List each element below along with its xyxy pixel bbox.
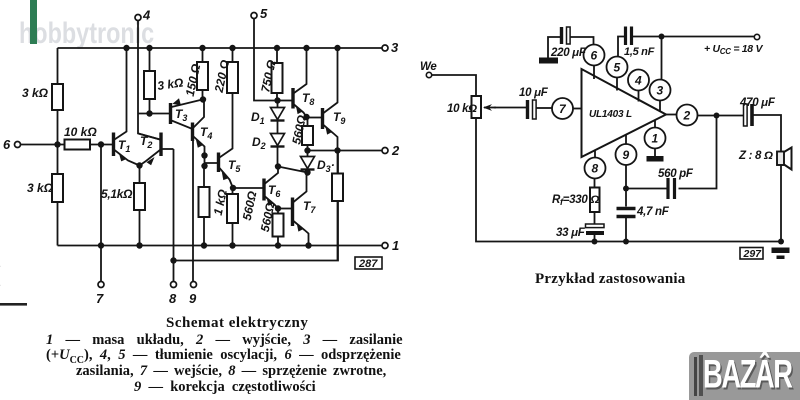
junction R8 rail [229,45,235,51]
svg-text:8: 8 [592,162,599,176]
junction D3 top node [304,147,310,153]
label 750 R11lbl [258,58,279,94]
svg-text:Rf=330 Ω: Rf=330 Ω [552,194,599,207]
resistor R10 560 (second) [273,209,284,246]
junction T5 emitter node [230,185,236,191]
label 560 R9 [240,189,260,221]
label 220uF [550,47,587,59]
junction emitters T1 T2 [136,162,142,168]
transistor T6 [264,167,278,209]
svg-text:T1: T1 [118,138,130,154]
svg-text:4: 4 [142,8,151,23]
label D1 [251,110,265,126]
svg-text:7: 7 [96,291,104,306]
label 220 R7lbl [212,58,233,95]
junction R10 rail [275,242,281,248]
svg-text:10 μF: 10 μF [519,87,549,99]
watermark BAZAR stripes [694,357,697,396]
label pin1 [392,238,399,253]
svg-text:T5: T5 [228,158,241,174]
junction T8 emitter node [303,114,309,120]
wire We to pot [432,75,476,96]
svg-text:287: 287 [358,258,378,270]
node supply terminal [754,34,759,39]
junction R5 bottom [146,110,152,116]
watermark green bar [30,0,37,44]
capacitor C2 220uF [548,27,594,58]
wire supply line [662,36,755,38]
capacitor C5 560pF [626,178,675,199]
pin circle 8 [585,150,606,179]
speaker Z8 [777,148,792,242]
svg-text:T6: T6 [268,183,281,199]
resistor R8 220 [227,48,238,93]
svg-text:+ UCC = 18 V: + UCC = 18 V [704,43,763,56]
junction supply [659,34,665,40]
label 10uF [519,87,549,99]
svg-text:D2: D2 [252,135,266,151]
caption Schemat elektryczny [166,315,308,332]
label pin5 [260,6,268,21]
svg-text:UL1403 L: UL1403 L [589,109,632,120]
resistor R12 560 (third) [302,117,313,151]
label digit 1 [652,132,659,146]
node We terminal [426,72,431,77]
junction T7 emitter rail [305,242,311,248]
junction 1k top [201,163,207,169]
node pin9 terminal [191,282,197,288]
label pin2 [391,143,400,158]
label T6 [268,183,281,199]
label 560pF [658,168,694,180]
pin circle 2 [666,105,698,126]
resistor R9 560 (first) [227,188,238,246]
wire pin8 down [594,179,596,188]
legend line 1 [46,332,400,349]
ground under pin1 [647,149,664,162]
svg-text:10 kΩ: 10 kΩ [447,103,477,115]
wire output node [308,150,383,152]
junction T8 collector rail [303,45,309,51]
svg-text:1,5 nF: 1,5 nF [624,46,655,58]
label 470uF [739,97,776,109]
wire pot bottom to ground rail [476,118,781,242]
label T9 [333,110,345,126]
pin circle 3 [650,80,671,113]
pin circle 5 [607,57,628,91]
node pin5 terminal [251,13,257,19]
label T1 [118,138,130,154]
wire pin8 column [173,149,175,282]
wire left column [57,48,59,246]
junction T1 base node [98,141,104,147]
node pin1 terminal [382,243,388,249]
node pin3 terminal [382,45,388,51]
svg-text:T3: T3 [175,107,187,123]
svg-text:4,7 nF: 4,7 nF [636,206,670,218]
transistor T4 [193,100,205,156]
wire bottom ground rail [58,245,385,247]
resistor R11 750 [272,48,283,101]
diode D3 [301,151,315,173]
ground under C2 [539,58,558,64]
node pin7 terminal [98,282,104,288]
label digit 6 [591,49,598,63]
wire feedback rail [174,152,339,261]
junction output [334,147,340,153]
junction T6 collector [275,163,281,169]
label D2 [252,135,266,151]
label pin3 [391,40,399,55]
svg-text:e: e [0,275,1,294]
label We [420,61,437,73]
ground speaker [772,248,790,260]
capacitor C3 1.5nF [618,27,662,57]
watermark BAZAR text [703,353,800,398]
label digit 5 [614,61,621,75]
pin circle 1 [645,120,666,149]
wire supply to pin3 [661,37,663,80]
svg-text:8: 8 [169,291,177,306]
label pin4 [142,8,151,23]
wire T4e to T5 base [205,156,219,167]
junction R9 rail [229,242,235,248]
junction T3-T4-150 node [200,96,206,102]
caption Przyklad zastosowania [535,271,685,288]
junction 560pF-9 [623,186,629,192]
wire T7 base [278,208,293,210]
svg-text:560Ω: 560Ω [240,189,260,221]
legend line 2 [46,347,402,366]
svg-text:3: 3 [391,40,399,55]
capacitor C6 4.7nF [617,209,636,242]
label digit 4 [634,74,642,88]
label 3k R2 [27,181,54,195]
legend line 4 [134,379,314,396]
label 297 box [740,248,763,261]
label digit 2 [683,109,691,123]
wire pin7 column [100,145,102,282]
wire T8 base [278,100,294,102]
label 287 box [355,257,382,270]
resistor R4 5k1 [134,166,145,246]
junction C7 rail [592,239,598,245]
capacitor C4 470uF [744,104,782,151]
junction pin5-750-D1-T8 node [274,97,280,103]
label 3k R1 [22,86,49,100]
label 5k1 R4 [101,187,133,201]
resistor R5 3k (near T3) [144,48,155,114]
stray line fragment [0,303,27,306]
pin circle 4 [628,70,649,102]
svg-text:6: 6 [591,49,598,63]
label 4.7nF [636,206,670,218]
junction R6 rail [199,45,205,51]
wire pin2 output [698,115,745,117]
resistor R2 3k (bottom left) [52,174,63,202]
transistor T5 [219,93,234,188]
wire T5e to T6 base [233,187,264,189]
junction T7 base node [275,205,281,211]
label 10k pot [447,103,477,115]
label digit 9 [623,148,630,162]
wire T8e to T9 base [307,117,323,119]
transistor T3 [171,98,203,129]
junction R5 rail [146,45,152,51]
label T3 [175,107,187,123]
svg-text:We: We [420,61,437,73]
resistor R3 10k horizontal [65,140,114,150]
capacitor C1 10uF [528,100,553,119]
svg-text:6: 6 [3,137,11,152]
label T8 [302,91,314,107]
resistor R13 feedback [332,151,343,261]
transistor T2 [139,133,174,166]
svg-text:2: 2 [683,109,691,123]
svg-text:D3·: D3· [317,158,335,174]
svg-text:e: e [0,256,1,275]
node pin4 terminal [135,15,141,21]
label 150 R6 [183,62,204,98]
resistor Rf 330 [590,188,600,224]
diode D2 [271,134,285,167]
wire pin9 column [192,141,194,282]
op-amp U1 triangle [582,69,667,157]
wire pin5 column [254,19,278,101]
label UL1403L [589,109,632,120]
label digit 3 [657,84,664,98]
junction R4 rail [136,242,142,248]
junction pin7 rail [98,242,104,248]
svg-text:5: 5 [614,61,621,75]
pin circle 7 [552,98,582,119]
svg-text:560 pF: 560 pF [658,168,694,180]
label T7 [303,199,316,215]
svg-text:T7: T7 [303,199,316,215]
stray letter fragment e1 [0,256,1,275]
stray letter fragment e2 [0,275,1,294]
resistor R6 150 [197,48,208,100]
svg-text:9: 9 [189,291,197,306]
label pin7 [96,291,104,306]
pin circle 9 [616,135,637,166]
watermark hobbytronic [19,17,154,51]
svg-text:T4: T4 [200,125,212,141]
label 1.5nF [624,46,655,58]
svg-text:Z : 8 Ω: Z : 8 Ω [738,150,773,162]
label T2 [140,134,152,150]
junction T9 collector rail [334,45,340,51]
svg-text:D1: D1 [251,110,265,126]
wire pin4 column [138,21,160,140]
junction D3 bottom node [304,169,310,175]
label digit 8 [592,162,599,176]
junction divider tap [54,141,60,147]
label 560 R10 [258,201,278,233]
label 1k R7 [211,188,230,217]
junction output node [714,113,720,119]
svg-text:2: 2 [391,143,400,158]
svg-text:3 kΩ: 3 kΩ [27,181,54,195]
wire T6c to D3 node [278,167,308,173]
wire top rail [58,47,385,49]
transistor T7 [293,173,309,246]
svg-text:T9: T9 [333,110,345,126]
label 3k R5 [156,75,184,93]
wire 560pF loop [679,116,717,189]
junction R11 rail [274,45,280,51]
label Z8 [738,150,773,162]
label pin9 [189,291,197,306]
watermark BAZAR band [689,352,800,400]
resistor R1 3k (top left) [52,84,63,110]
node pin2 terminal [382,148,388,154]
svg-text:9: 9 [623,148,630,162]
label 33uF [556,227,586,239]
node pin8 terminal [171,282,177,288]
legend line 3 [76,363,387,380]
svg-text:5,1kΩ: 5,1kΩ [101,187,133,201]
svg-text:5: 5 [260,6,268,21]
label T5 [228,158,241,174]
junction speaker ground [778,239,784,245]
resistor R7 1k [199,166,210,246]
svg-text:4: 4 [634,74,642,88]
junction C6 rail [623,239,629,245]
wire T3 base node [138,113,170,115]
label digit 7 [559,102,567,116]
svg-text:297: 297 [743,248,763,260]
svg-text:1: 1 [652,132,659,146]
diode D1 [271,101,285,134]
wire pin9 down [625,165,627,207]
junction R7 rail [201,242,207,248]
svg-text:33 μF: 33 μF [556,227,586,239]
label pin6 [3,137,11,152]
label Rf330 [552,194,599,207]
junction T1 collector rail [123,45,129,51]
label D3 [317,158,335,174]
pin circle 6 [584,45,605,80]
wire pin6 to divider [21,144,64,146]
svg-text:220 μF: 220 μF [550,47,587,59]
potentiometer 10k [472,96,497,118]
svg-text:470 μF: 470 μF [739,97,776,109]
capacitor C7 33uF [586,224,605,242]
svg-text:3: 3 [657,84,664,98]
wire wiper to C1 [494,107,528,109]
svg-text:3 kΩ: 3 kΩ [22,86,49,100]
transistor T1 [114,48,140,166]
label 560 R12 [289,113,309,145]
transistor T8 [293,48,307,117]
transistor T9 [323,48,338,151]
svg-text:T8: T8 [302,91,314,107]
svg-text:1: 1 [392,238,399,253]
label T4 [200,125,212,141]
svg-text:10 kΩ: 10 kΩ [64,125,97,139]
RIGHT-SCHEMATIC [426,27,791,260]
label 10k R3 [64,125,97,139]
node pin6 terminal [15,142,21,148]
label pin8 [169,291,177,306]
svg-text:3 kΩ: 3 kΩ [156,75,184,93]
label Ucc [704,43,763,56]
junction T4 emitter [201,152,207,158]
junction pin8 feedback rail [170,257,176,263]
